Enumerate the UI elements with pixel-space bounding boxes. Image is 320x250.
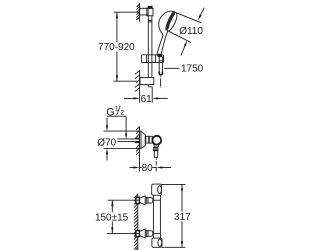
dimension 770-920 bbox=[114, 12, 140, 81]
61 left arrow bbox=[124, 97, 140, 99]
label G 1/2 bbox=[106, 106, 124, 119]
G1/2 leader with arrow bbox=[107, 116, 128, 139]
svg-text:1750: 1750 bbox=[181, 63, 204, 74]
hand shower face ellipse bbox=[165, 11, 179, 32]
holder bbox=[141, 55, 163, 63]
dimension 150±15 bbox=[111, 200, 113, 233]
hand shower face hatched rim bbox=[167, 13, 175, 30]
hand shower handle bbox=[157, 35, 163, 54]
dimension 317 bbox=[162, 184, 186, 247]
G1/2 fraction slash bbox=[117, 106, 121, 115]
leader 1750 bbox=[164, 67, 179, 69]
wall (valve zone) bbox=[136, 126, 139, 171]
rail bbox=[148, 16, 152, 78]
61 right arrow bbox=[152, 97, 168, 99]
valve hose centerline dash-dot bbox=[155, 159, 157, 172]
dimension 61 right extension bbox=[151, 87, 153, 103]
80 left arrow bbox=[130, 166, 140, 168]
valve hose stub bbox=[154, 151, 157, 157]
hand shower head back cover bbox=[159, 11, 176, 35]
hose connector below handle bbox=[159, 57, 162, 75]
wall (bottom bracket zone) bbox=[135, 70, 140, 103]
supply pipe across nut bbox=[134, 139, 139, 142]
dimension line Ø110 lower extension bbox=[168, 31, 191, 43]
svg-text:2: 2 bbox=[120, 110, 124, 117]
top bracket bbox=[140, 6, 153, 16]
thermostat body bbox=[153, 195, 160, 238]
bottom inlet connection bbox=[136, 229, 153, 238]
valve ball knob bbox=[152, 136, 161, 145]
hose centerline (dash-dot) bbox=[160, 76, 162, 87]
svg-text:317: 317 bbox=[174, 212, 191, 223]
thermostat bottom cap bbox=[152, 238, 162, 247]
valve outlet neck bbox=[154, 144, 159, 147]
body groove lines at connections bbox=[153, 200, 160, 233]
bottom bracket bbox=[140, 78, 154, 85]
rail end below bottom bracket bbox=[148, 85, 152, 87]
svg-text:80: 80 bbox=[142, 163, 154, 174]
valve escutcheon bbox=[140, 131, 146, 148]
supply hex nut bbox=[135, 138, 140, 144]
valve body rings bbox=[146, 136, 152, 143]
Ø110 upper arrow bbox=[198, 8, 204, 21]
svg-text:150±15: 150±15 bbox=[95, 212, 129, 223]
80 right arrow bbox=[156, 166, 171, 168]
hand shower head bottom edge bbox=[167, 31, 168, 35]
top inlet connection bbox=[136, 196, 153, 205]
svg-text:61: 61 bbox=[141, 94, 153, 105]
valve outlet nut (dark) bbox=[153, 147, 158, 151]
svg-text:Ø110: Ø110 bbox=[179, 26, 203, 37]
svg-text:Ø70: Ø70 bbox=[97, 137, 116, 148]
dimension line Ø110 upper extension bbox=[176, 13, 201, 23]
supply pipe in wall bbox=[117, 139, 134, 142]
wall (thermostat zone) bbox=[134, 194, 138, 250]
svg-text:770-920: 770-920 bbox=[98, 42, 135, 53]
dimension 150±15 extension lines bbox=[107, 200, 140, 233]
thermostat top cap bbox=[152, 184, 162, 195]
handle cone (dark) bbox=[157, 54, 163, 57]
Ø110 lower arrow bbox=[181, 41, 187, 56]
dimension 80 bbox=[140, 167, 157, 169]
dimension Ø70 bbox=[104, 118, 139, 161]
wall (top bracket zone) bbox=[137, 3, 140, 22]
